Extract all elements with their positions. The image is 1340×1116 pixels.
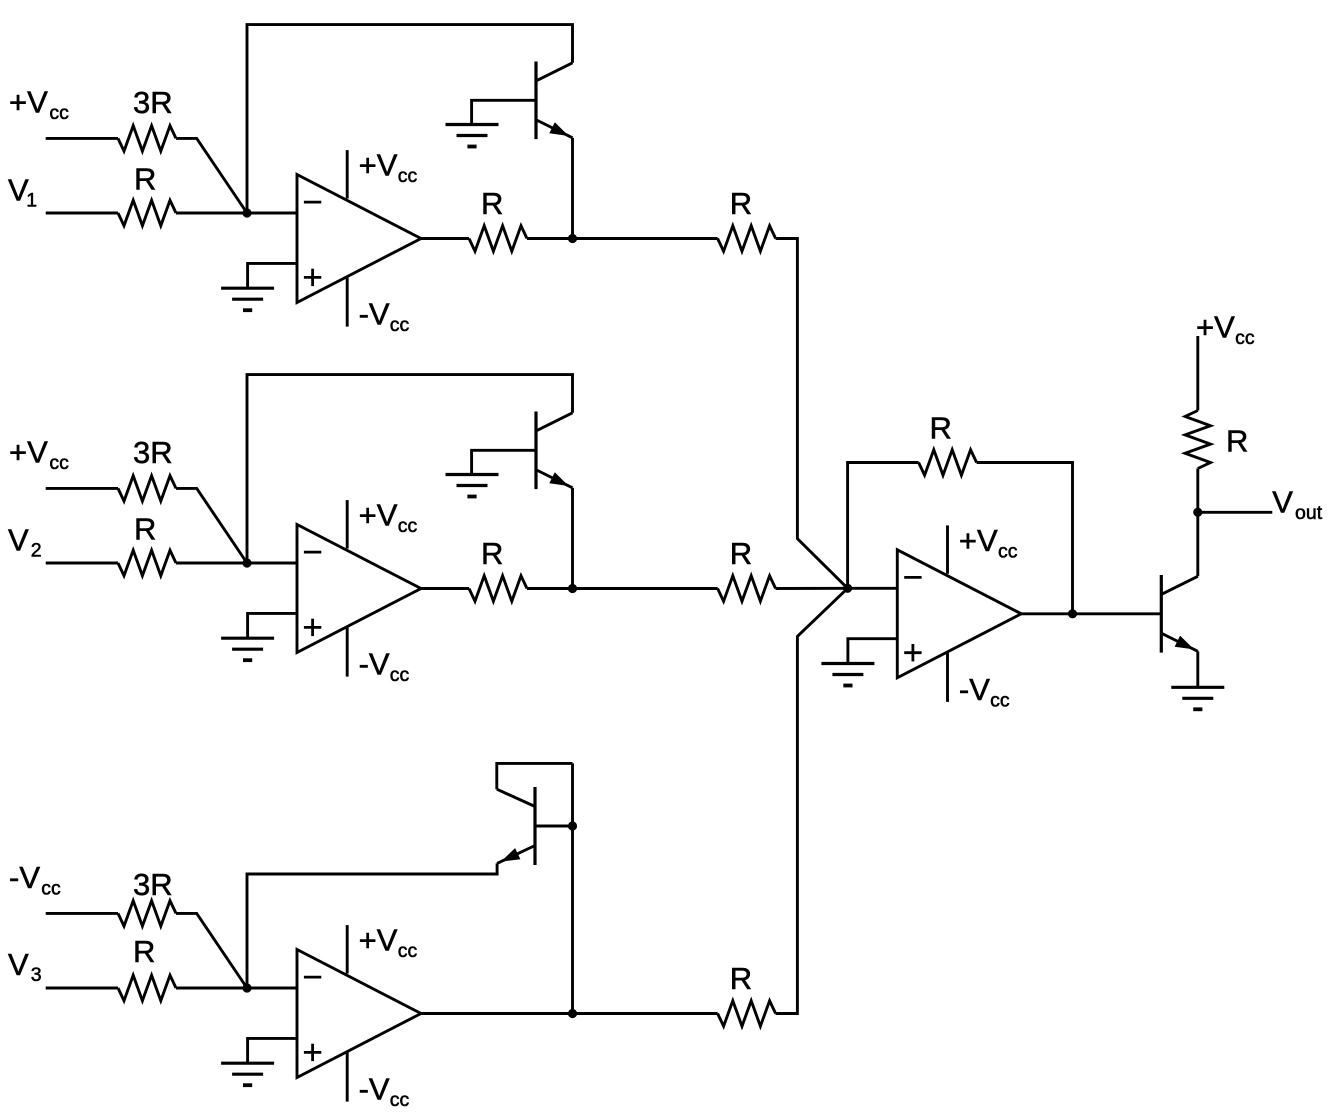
wire node A3 to op-amp U3 inverting input [247,987,297,990]
source V1 label [8,172,37,211]
wire +Vcc to 3R (stage 2) [46,487,118,490]
svg-text:cc: cc [990,690,1010,712]
wire Q4 emitter to ground [1196,651,1199,687]
resistor R (U4 feedback) [919,411,977,476]
node A2 (inverting summing junction) [242,558,251,567]
power +Vcc (U1) [347,148,417,199]
wire U3 output to node B3 [421,1012,573,1015]
svg-text:R: R [133,934,155,969]
power -Vcc (U2) [347,627,409,687]
source V2 label [8,522,42,561]
svg-text:2: 2 [31,540,42,562]
wire feedback node A3 to Q3 emitter [247,863,497,988]
wire 3R to node A2 [176,488,247,563]
ground (Q1 base) [446,125,499,147]
power -Vcc (stage 3 input) [9,860,61,900]
svg-text:+V: +V [9,434,48,469]
resistor 3R (stage 3) [118,867,176,926]
svg-text:+V: +V [359,923,398,958]
node D (U4 output node) [1068,609,1077,618]
svg-text:-V: -V [959,672,990,707]
resistor R (stage 2 to summing) [718,536,776,601]
svg-text:+V: +V [959,523,998,558]
wire Q2 emitter to node B2 [571,488,574,589]
power +Vcc (U4) [948,523,1018,574]
ground (Q2 base) [446,475,499,497]
svg-text:-V: -V [359,297,390,332]
power -Vcc (U3) [347,1052,409,1112]
svg-text:3R: 3R [133,85,173,120]
wire Q1 base to ground [472,100,536,124]
wire feedback node A2 to Q2 collector [247,375,573,563]
svg-text:R: R [481,186,503,221]
wire Q2 base to ground [472,450,536,474]
wire U1 non-inverting input to ground [248,263,297,288]
svg-text:3: 3 [31,964,42,986]
wire node Vout to Vout label [1198,511,1273,514]
wire feedback node A1 to Q1 collector [247,25,573,213]
svg-text:cc: cc [398,940,418,962]
power -Vcc (U1) [347,277,409,337]
wire R to node A3 [176,987,247,990]
svg-text:R: R [481,536,503,571]
resistor R (stage 1 input) [118,161,176,225]
svg-text:cc: cc [998,540,1018,562]
label Vout [1272,484,1322,524]
node A3 (inverting summing junction) [242,983,251,992]
wire U4 output to Q4 base [1021,612,1161,615]
svg-text:-V: -V [359,1072,390,1107]
wire node Vout to resistor R [1196,469,1199,513]
op-amp U3 [297,950,421,1078]
svg-text:+V: +V [359,148,398,183]
wire 3R to node A1 [176,138,247,213]
svg-text:1: 1 [26,190,37,212]
svg-text:cc: cc [41,877,61,899]
svg-text:-V: -V [359,647,390,682]
svg-text:cc: cc [1235,327,1255,349]
wire node S to op-amp U4 inverting input [848,587,898,590]
svg-text:3R: 3R [133,867,173,902]
resistor R (stage 1 to summing) [718,186,776,251]
wire U2 non-inverting input to ground [248,613,297,638]
wire R to node A1 [176,212,247,215]
wire U4 non-inverting input to ground [848,639,897,664]
svg-text:R: R [134,511,156,546]
transistor Q2 (NPN) [536,412,573,490]
wire R to node B2 [527,587,573,590]
wire R to U4 output node [977,463,1073,614]
node B1 (U1 output node) [568,234,577,243]
power +Vcc (output stage) [1196,309,1255,349]
wire Q3 collector loop to node C3 [497,763,573,789]
node Vout (collector node) [1193,508,1202,517]
ground (U3 non-inverting input) [221,1063,274,1085]
ground (Q4 emitter) [1171,687,1224,709]
svg-text:+V: +V [9,84,48,119]
svg-text:R: R [1226,424,1248,459]
resistor 3R (stage 1) [118,85,176,151]
power +Vcc (U2) [347,498,417,549]
node B2 (U2 output node) [568,584,577,593]
resistor 3R (stage 2) [118,435,176,501]
svg-text:R: R [730,536,752,571]
wire Q3 base to node C3 [535,825,573,828]
transistor Q4 (NPN) [1161,575,1198,653]
node S (summing junction) [843,584,852,593]
node B3 (U3 output node) [568,1009,577,1018]
ground (U4 non-inverting input) [821,664,874,686]
wire R to summing node S (stage 3 riser) [776,588,848,1013]
wire +Vcc to 3R (stage 1) [46,137,118,140]
wire R to summing node S [776,587,848,590]
op-amp U2 [297,525,421,653]
resistor R (U2 output) [469,536,527,601]
svg-text:V: V [8,522,29,557]
wire node B2 to R (stage 2 to summing) [573,587,718,590]
wire node B1 to R (stage 1 to summing) [573,237,718,240]
resistor R (stage 3 input) [118,934,176,1001]
wire 3R to node A3 [176,913,247,988]
wire U2 output to R [421,587,469,590]
svg-text:+V: +V [359,498,398,533]
ground (U1 non-inverting input) [221,288,274,310]
node C3 (Q3 base-collector tie) [568,821,577,830]
wire Q1 emitter to node B1 [571,138,574,239]
svg-text:-V: -V [9,860,40,895]
wire V2 to R (stage 2) [46,562,118,565]
source V3 label [8,947,42,986]
svg-text:cc: cc [49,452,69,474]
wire U1 output to R [421,237,469,240]
transistor Q3 (PNP) [497,787,535,865]
svg-text:cc: cc [390,314,410,336]
transistor Q1 (NPN) [536,62,573,140]
svg-text:3R: 3R [133,435,173,470]
wire -Vcc to 3R (stage 3) [46,912,118,915]
op-amp U1 [297,175,421,303]
svg-text:R: R [730,186,752,221]
node A1 (inverting summing junction) [242,208,251,217]
wire R to summing node S (stage 1 riser) [776,239,848,589]
power +Vcc (stage 1 input) [9,84,69,124]
resistor R (Q4 collector load) [1185,410,1248,468]
wire node C3 to node B3 [571,763,574,1013]
resistor R (stage 3 to summing) [718,961,776,1026]
power +Vcc (U3) [347,923,417,974]
power -Vcc (U4) [948,652,1010,712]
wire feedback node S to R [848,463,919,589]
wire node A1 to op-amp U1 inverting input [247,212,297,215]
wire node B3 to R (stage 3 to summing) [573,1012,718,1015]
svg-text:R: R [930,411,952,446]
resistor R (stage 2 input) [118,511,176,575]
svg-text:cc: cc [390,1089,410,1111]
svg-text:V: V [1272,484,1293,519]
power +Vcc (stage 2 input) [9,434,69,474]
wire R to node A2 [176,562,247,565]
svg-text:+V: +V [1196,309,1235,344]
svg-text:cc: cc [49,102,69,124]
svg-text:cc: cc [390,664,410,686]
wire Q4 collector to node Vout [1196,512,1199,576]
resistor R (U1 output) [469,186,527,251]
svg-text:R: R [730,961,752,996]
svg-text:cc: cc [398,165,418,187]
svg-text:out: out [1295,502,1323,524]
wire node A2 to op-amp U2 inverting input [247,562,297,565]
svg-text:V: V [8,947,29,982]
svg-text:cc: cc [398,515,418,537]
wire R to +Vcc [1196,336,1199,411]
wire V1 to R (stage 1) [46,212,118,215]
wire R to node B1 [527,237,573,240]
svg-text:R: R [134,161,156,196]
wire V3 to R (stage 3) [46,987,118,990]
ground (U2 non-inverting input) [221,638,274,660]
wire U3 non-inverting input to ground [248,1038,297,1063]
op-amp U4 [897,550,1021,678]
